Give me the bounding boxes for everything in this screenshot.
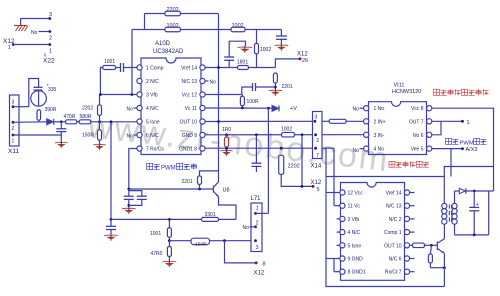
svg-text:6 N/C: 6 N/C [146,133,159,139]
svg-text:1 Comp: 1 Comp [146,66,164,72]
svg-text:1 No: 1 No [374,106,385,112]
svg-text:12 Vcc: 12 Vcc [348,191,364,197]
svg-text:L71: L71 [251,196,262,202]
svg-text:1001: 1001 [150,231,161,237]
svg-text:4 N/C: 4 N/C [348,230,361,236]
svg-text:1001: 1001 [104,59,115,65]
svg-text:335: 335 [48,87,57,93]
svg-text:1002: 1002 [260,47,271,53]
svg-text:1: 1 [12,139,15,145]
svg-text:GND 9: GND 9 [182,133,198,139]
svg-text:47R0: 47R0 [151,251,163,257]
svg-text:Comp 1: Comp 1 [384,230,402,236]
svg-text:3 Vfb: 3 Vfb [146,93,158,99]
svg-text:5 Isne: 5 Isne [348,243,362,249]
svg-text:2 N/C: 2 N/C [146,79,159,85]
svg-text:3: 3 [49,12,52,18]
svg-text:150R: 150R [195,241,207,247]
svg-text:OUT 10: OUT 10 [384,243,402,249]
svg-text:3 Vfb: 3 Vfb [348,217,360,223]
svg-text:1801: 1801 [237,60,248,66]
svg-text:8: 8 [263,262,266,268]
svg-text:+V: +V [290,106,297,112]
svg-text:No: No [127,133,134,139]
svg-text:8 GND1: 8 GND1 [348,270,366,276]
svg-text:X12: X12 [254,271,265,277]
svg-text:26: 26 [302,58,308,64]
svg-text:No: No [353,148,360,154]
svg-text:4 No: 4 No [374,147,385,153]
svg-text:3: 3 [256,245,259,251]
svg-text:X14: X14 [311,164,322,170]
svg-text:N/C 13: N/C 13 [386,204,402,210]
svg-text:Vref 14: Vref 14 [181,66,197,72]
svg-text:Vee 5: Vee 5 [411,147,424,153]
svg-text:2202: 2202 [82,106,93,112]
svg-text:A/X3: A/X3 [466,147,478,153]
svg-text:PWM: PWM [161,166,176,172]
svg-text:A10D: A10D [155,41,171,47]
svg-text:OUT 7: OUT 7 [409,119,424,125]
svg-text:Vcc 8: Vcc 8 [411,106,424,112]
svg-text:5 Isne: 5 Isne [146,120,160,126]
svg-text:Vref 14: Vref 14 [386,191,402,197]
svg-text:3 IN-: 3 IN- [374,133,385,139]
svg-text:HCNW3120: HCNW3120 [392,89,421,95]
svg-text:4 N/C: 4 N/C [146,106,159,112]
svg-text:No 6: No 6 [413,133,424,139]
svg-text:1: 1 [467,120,470,126]
svg-text:X11: X11 [8,148,19,155]
svg-text:X12: X12 [297,52,308,58]
svg-text:2: 2 [49,36,52,42]
svg-text:No: No [353,107,360,113]
svg-text:3: 3 [12,100,15,106]
svg-text:Rx/Ct 7: Rx/Ct 7 [385,270,402,276]
svg-text:1: 1 [256,206,259,212]
svg-text:100R: 100R [247,99,259,105]
svg-text:OUT 10: OUT 10 [180,120,198,126]
svg-text:PWM: PWM [460,140,474,146]
svg-text:150R: 150R [82,133,94,139]
svg-text:VI11: VI11 [394,83,405,89]
svg-text:No: No [31,30,38,36]
svg-text:2: 2 [12,126,15,132]
svg-text:2201: 2201 [182,179,193,185]
svg-text:N/C 6: N/C 6 [389,257,402,263]
svg-text:UC3842AD: UC3842AD [153,49,184,55]
svg-text:7: 7 [316,153,319,159]
svg-text:7 Rx/Cs: 7 Rx/Cs [146,147,164,153]
svg-text:2201: 2201 [282,84,293,90]
svg-text:X22: X22 [43,58,55,65]
svg-text:1002: 1002 [281,127,292,133]
svg-text:No: No [210,79,217,85]
svg-text:1R0: 1R0 [222,127,231,133]
svg-text:2 IN+: 2 IN+ [374,119,386,125]
svg-text:Vcc 12: Vcc 12 [182,93,198,99]
svg-text:U8: U8 [223,188,230,194]
svg-text:GND1 8: GND1 8 [179,147,197,153]
svg-text:N/C 13: N/C 13 [181,79,197,85]
svg-text:2: 2 [256,220,259,226]
svg-text:11 Vc: 11 Vc [348,204,361,210]
svg-text:390R: 390R [45,107,57,113]
svg-text:No: No [243,225,250,231]
svg-text:N/C 2: N/C 2 [389,217,402,223]
svg-text:2202: 2202 [288,164,300,170]
svg-text:1: 1 [8,45,11,51]
svg-text:X12: X12 [311,180,322,186]
svg-text:Vc 11: Vc 11 [185,106,198,112]
svg-text:3: 3 [315,114,318,120]
svg-text:9 GND: 9 GND [348,257,364,263]
svg-text:No: No [127,106,134,112]
svg-text:5: 5 [317,187,320,193]
svg-text:1: 1 [49,49,52,55]
svg-text:2: 2 [316,138,319,144]
